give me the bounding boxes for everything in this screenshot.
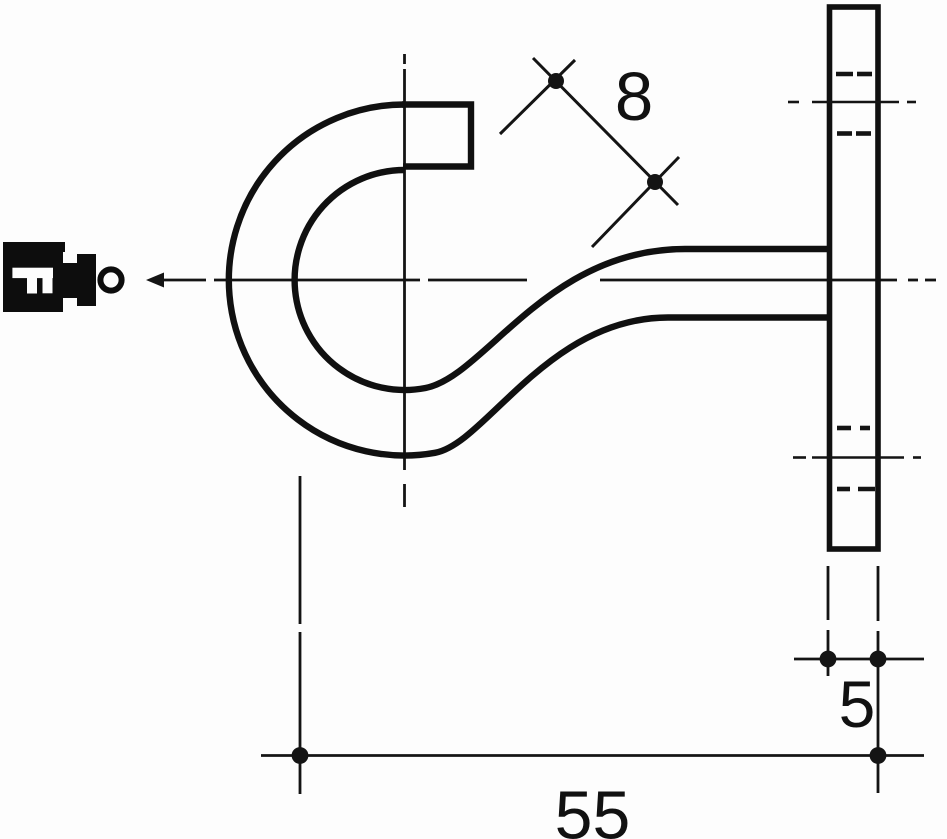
svg-text:55: 55 — [555, 778, 631, 839]
svg-text:8: 8 — [615, 58, 653, 135]
svg-text:5: 5 — [839, 667, 876, 741]
